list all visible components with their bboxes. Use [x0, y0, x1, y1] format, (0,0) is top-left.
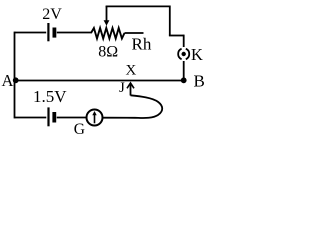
rheostat wiper arrow: [104, 6, 110, 26]
potentiometer wire A to B: [16, 80, 184, 82]
wire step horizontal: [169, 35, 184, 37]
svg-text:G: G: [74, 121, 85, 138]
svg-text:A: A: [2, 71, 14, 90]
svg-text:8Ω: 8Ω: [98, 44, 118, 61]
svg-text:Rh: Rh: [132, 35, 152, 54]
wire loop right vertical: [169, 6, 171, 36]
wire down to key: [183, 35, 185, 47]
battery 2V plate short: [53, 28, 57, 38]
wire key to B: [183, 61, 185, 81]
battery 2V plate long: [47, 23, 49, 41]
node B dot: [181, 77, 187, 83]
wire left vertical: [14, 32, 16, 119]
battery 1.5V plate short: [52, 112, 56, 123]
galvanometer G: [87, 110, 103, 126]
svg-text:B: B: [194, 72, 205, 91]
node A dot: [13, 77, 19, 83]
svg-text:1.5V: 1.5V: [33, 87, 67, 106]
svg-text:2V: 2V: [42, 6, 62, 23]
wire battery to rheostat: [57, 32, 92, 34]
wire rheostat right stub: [125, 32, 144, 34]
key K symbol: [178, 49, 189, 60]
battery 1.5V plate long: [47, 107, 49, 126]
svg-text:J: J: [119, 80, 125, 96]
wire battery to galvanometer: [57, 117, 87, 119]
wire hook jockey to galvanometer: [103, 95, 163, 118]
jockey J arrow: [127, 83, 134, 96]
wire loop top: [106, 5, 170, 7]
wire bottom-left horizontal: [15, 117, 47, 119]
svg-text:X: X: [126, 63, 137, 79]
svg-text:K: K: [191, 45, 203, 64]
rheostat resistor zigzag: [91, 28, 125, 39]
wire top-left horizontal: [15, 32, 47, 34]
